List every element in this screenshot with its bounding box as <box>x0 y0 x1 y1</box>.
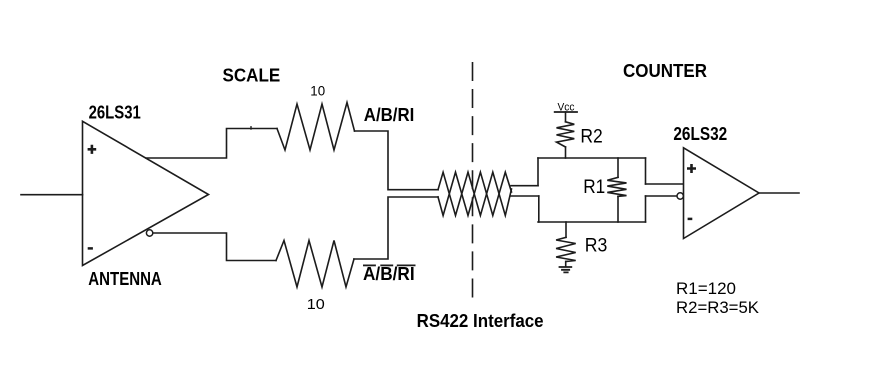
wire: Vcc to R2 <box>565 112 567 122</box>
overline of node label /B <box>381 264 392 266</box>
wire: U2 output <box>759 192 799 194</box>
wire: U1 lower output to bottom resistor <box>153 233 276 261</box>
svg-text:A/B/RI: A/B/RI <box>363 264 415 284</box>
svg-text:R2=R3=5K: R2=R3=5K <box>676 298 760 317</box>
svg-text:ANTENNA: ANTENNA <box>88 269 162 289</box>
overline of node label /A <box>364 264 375 266</box>
overline of node label /RI <box>398 264 415 266</box>
Vcc symbol <box>555 111 577 113</box>
resistor R2 <box>557 122 575 147</box>
svg-text:R3: R3 <box>585 236 608 257</box>
twisted pair strand 2 <box>438 172 512 215</box>
pin + (U1 non-inverting marker) <box>88 145 97 154</box>
resistor top 10 <box>277 103 355 151</box>
resistor R1 <box>607 177 626 196</box>
op-amp U2 26LS32 receiver triangle <box>684 148 760 239</box>
svg-text:A/B/RI: A/B/RI <box>364 105 415 125</box>
pin - (U1 inverting marker) <box>88 247 93 250</box>
dashed boundary line RS422 interface <box>472 62 474 298</box>
resistor R3 <box>556 237 576 261</box>
wire: bottom resistor to twisted pair (node /A /B /RI) <box>354 197 438 259</box>
svg-text:10: 10 <box>307 296 325 313</box>
wire: R3 to ground <box>565 262 567 267</box>
svg-text:R1=120: R1=120 <box>676 279 736 298</box>
resistor bottom 10 <box>276 241 354 288</box>
wire: termination box right lower edge <box>645 196 647 222</box>
inversion bubble on U2 - input <box>677 193 683 199</box>
wire: R1 upper lead <box>617 158 619 177</box>
wire: bottom rail to R3 <box>565 222 567 237</box>
wire: input line into 26LS31 <box>21 194 83 196</box>
junction tick on top wire <box>250 127 252 129</box>
svg-text:26LS32: 26LS32 <box>673 124 727 144</box>
pin + (U2 non-inverting marker) <box>687 164 696 173</box>
svg-text:SCALE: SCALE <box>223 65 281 85</box>
wire: twisted pair upper to termination network <box>511 185 538 187</box>
wire: termination box left lower edge <box>538 196 540 222</box>
wire: U1 upper output to top resistor <box>146 129 277 159</box>
wire: R1 lower lead <box>617 196 619 222</box>
svg-text:RS422 Interface: RS422 Interface <box>417 311 544 331</box>
ground <box>560 267 572 272</box>
wire: termination box left upper edge <box>537 158 539 186</box>
wire: termination box top rail <box>538 157 646 159</box>
inversion bubble on U1 lower output <box>146 230 152 236</box>
wire: termination to U2 + input <box>646 183 684 185</box>
svg-text:26LS31: 26LS31 <box>89 103 141 123</box>
svg-text:R2: R2 <box>580 127 602 148</box>
wire: top resistor to twisted pair (node A/B/RI) <box>355 131 439 190</box>
svg-text:10: 10 <box>310 83 325 99</box>
wire: twisted pair lower to termination network <box>511 195 539 197</box>
svg-text:Vcc: Vcc <box>558 102 575 114</box>
op-amp U1 26LS31 driver triangle <box>83 121 209 265</box>
pin - (U2 inverting marker) <box>688 218 693 221</box>
wire: R2 to top rail <box>565 147 567 158</box>
wire: termination to U2 - input <box>646 195 678 197</box>
twisted pair strand 1 <box>438 172 512 215</box>
svg-text:COUNTER: COUNTER <box>623 61 707 81</box>
wire: termination box right upper edge <box>645 158 647 184</box>
svg-text:R1: R1 <box>583 177 605 198</box>
wire: termination box bottom rail <box>538 221 646 223</box>
